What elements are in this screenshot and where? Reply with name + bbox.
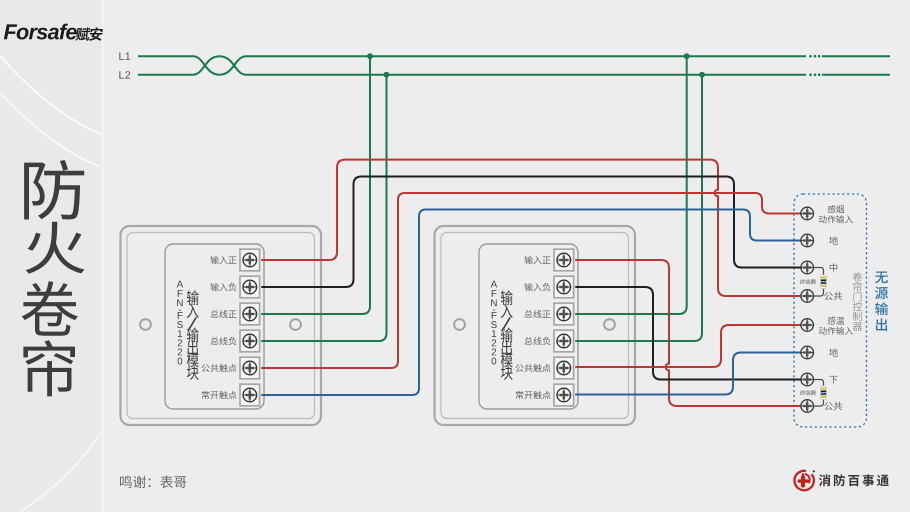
wire: U2 输入负 to controller 下 (black) xyxy=(576,287,801,380)
module U2 vertical text 输入/输出模块 xyxy=(501,290,513,380)
module U2 terminal 2 输入负 xyxy=(524,276,573,298)
controller terminal 4 公共 (common-upper) xyxy=(801,290,842,303)
module U1 terminal 3 总线正 xyxy=(210,303,259,325)
controller terminal 8 公共 (common-lower) xyxy=(801,400,842,413)
module U1 terminal 1 输入正 xyxy=(210,249,259,271)
wire: U1 公共触点 to controller 感烟动作输入 (red) xyxy=(262,193,801,368)
module U2 vertical model text AFN-FS1220 xyxy=(491,281,498,365)
module U2 terminal 1 输入正 xyxy=(524,249,573,271)
module U1 terminal 6 常开触点 xyxy=(202,384,260,406)
terminator resistor 终端器 across controller 下/公共 xyxy=(800,380,826,407)
wire: bus L2 (green twisted pair lower, with break dots) xyxy=(138,56,890,76)
controller terminal 7 下 (down) xyxy=(801,373,838,386)
module U1 AFN-FS1220 input/output module: wall plate xyxy=(121,226,322,425)
wire: U1 输入负 to controller 中 (black) xyxy=(262,177,801,288)
label L2 xyxy=(119,71,130,78)
wire: U2 常开触点 to controller 地(lower) (blue) xyxy=(576,353,801,395)
module U2 terminal 3 总线正 xyxy=(524,303,573,325)
Forsafe 赋安 logo (black wordmark) xyxy=(4,24,103,41)
wire: L2 bus to U1 terminal4 总线负 (green) xyxy=(262,75,387,341)
module U2 terminal 6 常开触点 xyxy=(516,384,574,406)
module U1 terminal panel xyxy=(165,244,264,409)
footer credit 鸣谢：表哥 xyxy=(120,475,186,488)
junction: L2 to U2 bus- drop xyxy=(699,72,705,78)
module U1 terminal 2 输入负 xyxy=(210,276,259,298)
wire: U2 公共触点 to controller 感温动作输入 (red) xyxy=(576,325,801,367)
vertical page title 防火卷帘 xyxy=(22,160,85,396)
module U2 mounting screw hole left xyxy=(454,319,465,330)
wire: U1 输入正 to controller 公共(upper) (red, hop over red at 718,193) xyxy=(262,160,801,296)
controller terminal 3 中 (middle) xyxy=(801,261,837,274)
wire: U1 常开触点 to controller 地(upper) (blue) xyxy=(262,210,801,396)
controller terminal 1 感烟动作输入 (smoke-act-input) xyxy=(801,205,853,223)
footer logo 消防百事通 (fire info site) xyxy=(794,470,888,490)
label L1 xyxy=(119,53,130,60)
module U1 terminal 4 总线负 xyxy=(210,330,259,352)
module U1 vertical text 输入/输出模块 xyxy=(187,290,199,380)
controller terminal 2 地 (gnd-upper) xyxy=(801,234,838,247)
module U1 mounting screw hole right xyxy=(290,319,301,330)
module U2 terminal 4 总线负 xyxy=(524,330,573,352)
wire: L2 bus to U2 terminal4 总线负 (green) xyxy=(576,75,702,341)
junction: L1 to U2 bus+ drop xyxy=(684,53,690,59)
module U2 mounting screw hole right xyxy=(604,319,615,330)
junction: L1 to U1 bus+ drop xyxy=(367,53,373,59)
module U2 terminal panel xyxy=(479,244,578,409)
terminator resistor 终端器 across controller 中/公共 xyxy=(800,268,826,297)
controller vertical label 卷帘门控制器 xyxy=(853,272,862,331)
controller terminal 6 地 (gnd-lower) xyxy=(801,346,838,359)
module U1 mounting screw hole left xyxy=(140,319,151,330)
vertical label 无源输出 (passive output) xyxy=(875,271,888,331)
controller terminal 5 感温动作输入 (heat-act-input) xyxy=(801,317,853,335)
module U2 terminal 5 公共触点 xyxy=(515,357,573,379)
wire: U2 输入正 to controller 公共(lower) (red, hop over red at 669,367) xyxy=(576,260,801,406)
left sidebar panel with decorative arcs xyxy=(0,0,103,512)
wire: L1 bus to U1 terminal3 总线正 (green) xyxy=(262,56,370,314)
junction: L2 to U1 bus- drop xyxy=(384,72,390,78)
module U1 vertical model text AFN-FS1220 xyxy=(177,281,184,365)
wire: bus L1 (green twisted pair upper, with break dots) xyxy=(138,55,890,75)
module U2 AFN-FS1220 input/output module: wall plate xyxy=(435,226,636,425)
module U1 terminal 5 公共触点 xyxy=(201,357,259,379)
wire: L1 bus to U2 terminal3 总线正 (green) xyxy=(576,56,687,314)
controller dashed enclosure 卷帘门控制器 xyxy=(794,194,867,427)
